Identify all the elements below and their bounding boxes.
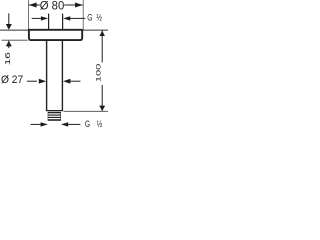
svg-text:16: 16 (3, 52, 11, 65)
svg-text:100: 100 (95, 64, 102, 83)
svg-text:Ø 27: Ø 27 (1, 74, 23, 86)
svg-text:G ½: G ½ (87, 13, 103, 23)
svg-text:Ø 80: Ø 80 (40, 0, 65, 13)
svg-text:G ½: G ½ (85, 119, 105, 129)
